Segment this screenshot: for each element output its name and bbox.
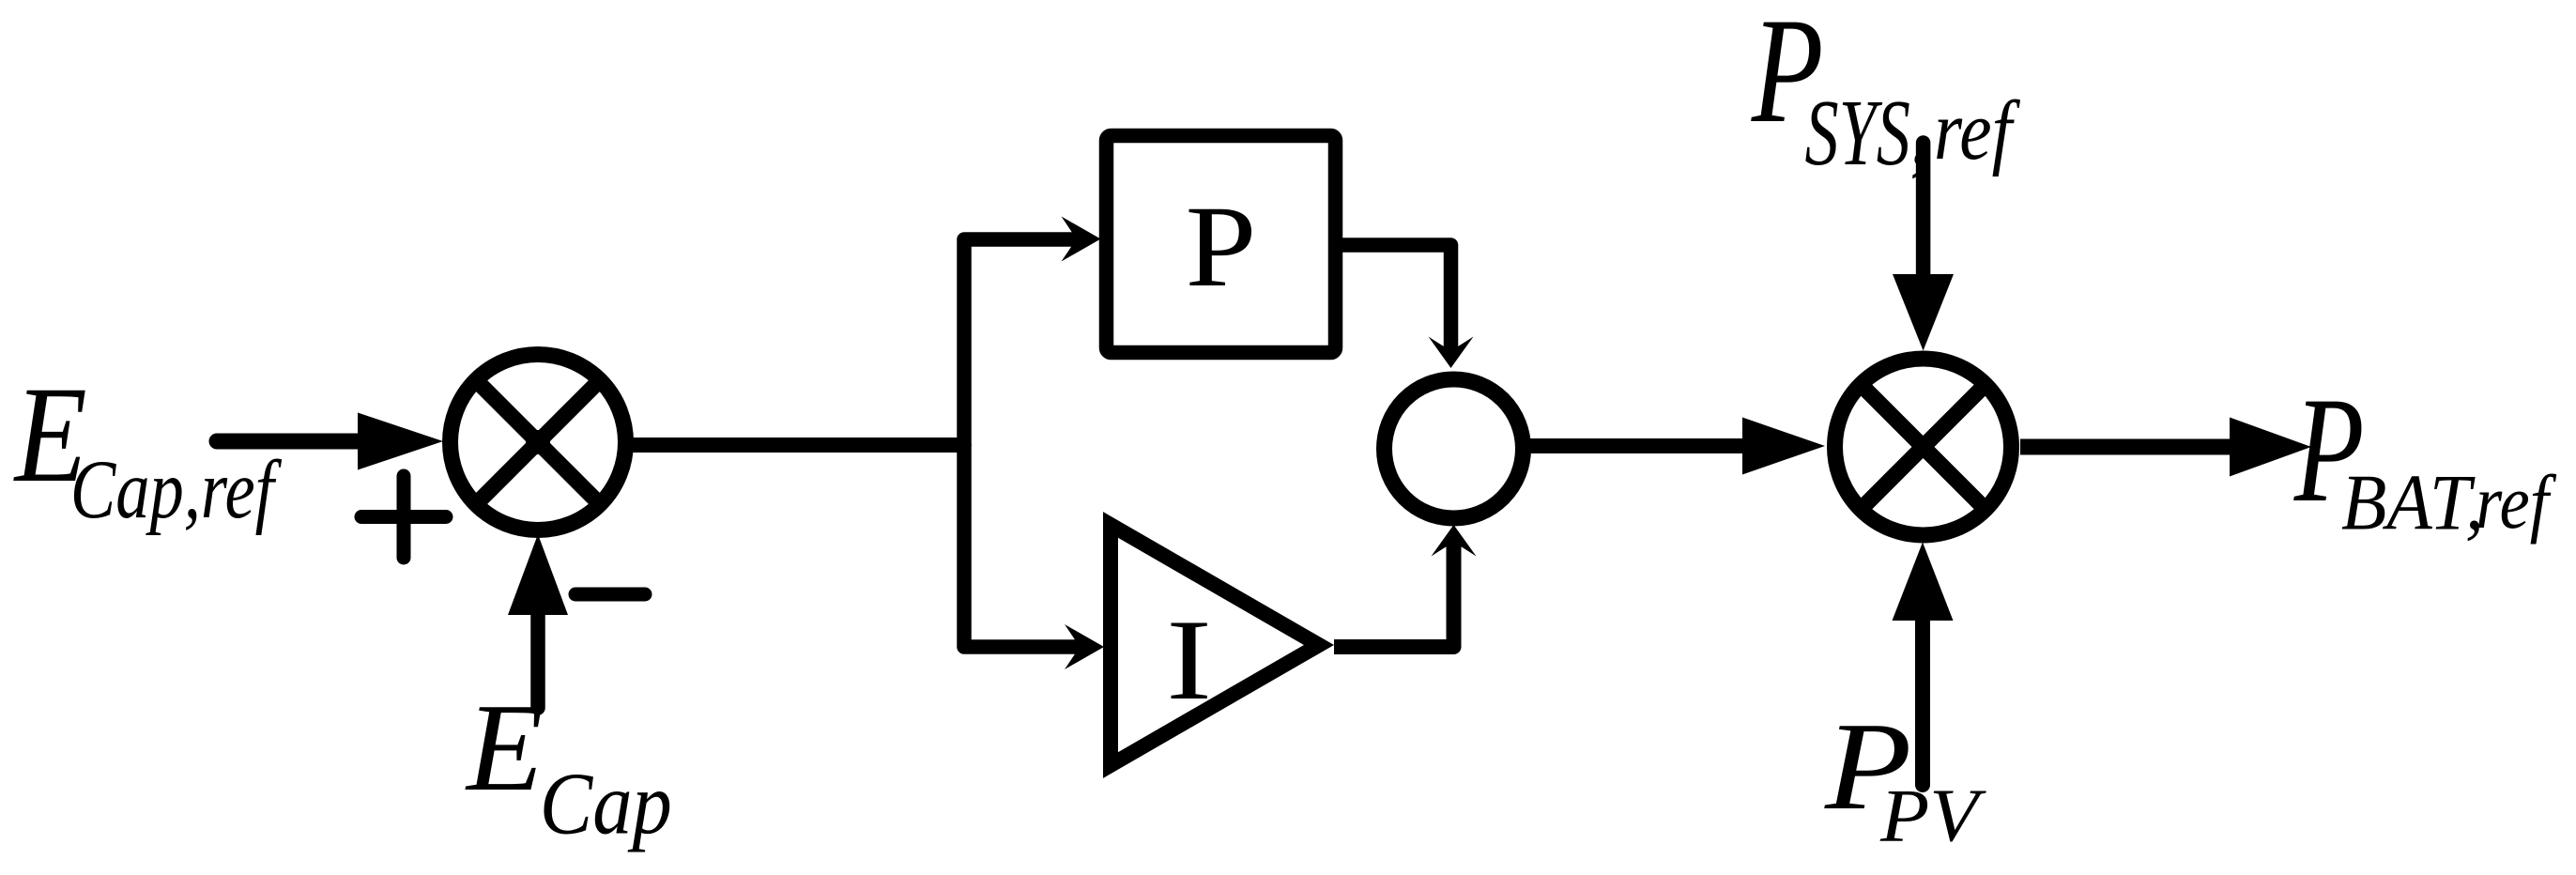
svg-text:P: P bbox=[1186, 183, 1257, 312]
minus sign at S1 bbox=[575, 588, 645, 602]
svg-text:BAT,: BAT, bbox=[2341, 458, 2484, 546]
svg-text:SYS,: SYS, bbox=[1805, 80, 1927, 185]
wire: P output to S3 top bbox=[1335, 245, 1451, 351]
wire: input from E_Cap,ref bbox=[217, 434, 361, 450]
svg-text:I: I bbox=[1166, 597, 1212, 725]
arrow P_PV up into S2 bbox=[1893, 543, 1954, 786]
block P (proportional) bbox=[1107, 136, 1336, 353]
arrowhead into P block bbox=[1062, 217, 1101, 262]
wire: S2 output bbox=[2020, 439, 2230, 455]
wire: I output to S3 bottom bbox=[1334, 542, 1454, 647]
node E_Cap,ref input label bbox=[13, 358, 282, 536]
output arrowhead bbox=[2230, 418, 2311, 477]
node P_PV label bbox=[1824, 697, 1986, 858]
node E_Cap feedback label bbox=[465, 678, 672, 853]
summing junction S2 (circle with X) bbox=[1835, 359, 2012, 535]
arrowhead into S2 bbox=[1742, 418, 1825, 475]
wire: S1 output to branch node bbox=[626, 437, 964, 453]
summing junction S1 (circle with X) bbox=[451, 355, 626, 530]
arrowhead into summing junction S1 bbox=[358, 413, 443, 470]
junction dot at S1 center bbox=[526, 430, 550, 454]
arrow P_SYS,ref down into S2 bbox=[1893, 143, 1954, 351]
wire: branch to I block bbox=[964, 445, 1081, 647]
summing circle S3 bbox=[1385, 379, 1524, 518]
wire: S3 output to S2 bbox=[1523, 438, 1744, 453]
node P_BAT,ref output label bbox=[2293, 366, 2557, 546]
node P_SYS,ref label bbox=[1751, 0, 2020, 185]
svg-text:Cap: Cap bbox=[540, 755, 672, 852]
wire: branch to P block bbox=[964, 239, 1078, 445]
svg-text:ref: ref bbox=[2476, 459, 2557, 545]
svg-text:E: E bbox=[465, 678, 544, 817]
arrowhead into S3 bottom bbox=[1432, 525, 1477, 557]
arrowhead into S3 top bbox=[1429, 337, 1474, 369]
plus sign at S1 bbox=[361, 476, 446, 558]
arrow from E_Cap up into S1 bbox=[508, 534, 568, 708]
svg-text:ref: ref bbox=[1934, 84, 2020, 178]
svg-text:PV: PV bbox=[1879, 775, 1986, 858]
arrowhead into I block bbox=[1065, 624, 1104, 669]
svg-text:Cap,ref: Cap,ref bbox=[70, 443, 282, 536]
block I triangle (integrator) bbox=[1111, 525, 1319, 765]
